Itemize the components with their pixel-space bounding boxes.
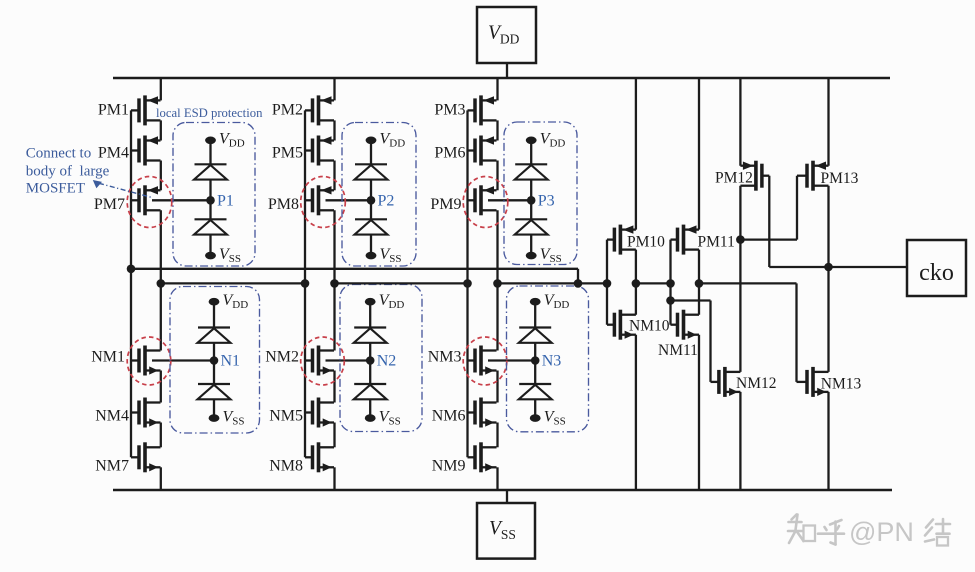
svg-text:P2: P2 bbox=[378, 193, 395, 210]
svg-text:PM11: PM11 bbox=[698, 234, 735, 251]
svg-text:NM11: NM11 bbox=[658, 342, 698, 359]
svg-text:N3: N3 bbox=[542, 353, 562, 370]
svg-text:cko: cko bbox=[919, 260, 954, 286]
svg-text:VSS: VSS bbox=[540, 246, 562, 265]
svg-text:NM6: NM6 bbox=[432, 408, 466, 425]
svg-text:N2: N2 bbox=[377, 353, 397, 370]
svg-text:PM1: PM1 bbox=[98, 102, 129, 119]
svg-text:PM3: PM3 bbox=[434, 102, 465, 119]
svg-text:VDD: VDD bbox=[219, 131, 245, 150]
svg-text:NM5: NM5 bbox=[269, 408, 303, 425]
svg-text:PM4: PM4 bbox=[98, 145, 129, 162]
svg-text:body of large: body of large bbox=[26, 164, 110, 180]
svg-text:VSS: VSS bbox=[489, 518, 516, 542]
svg-text:VSS: VSS bbox=[544, 408, 566, 427]
svg-text:PM12: PM12 bbox=[715, 170, 753, 187]
svg-text:PM9: PM9 bbox=[430, 196, 461, 213]
svg-text:P3: P3 bbox=[538, 193, 555, 210]
svg-text:PM7: PM7 bbox=[94, 196, 125, 213]
svg-text:NM10: NM10 bbox=[629, 318, 670, 335]
svg-text:VDD: VDD bbox=[540, 131, 566, 150]
svg-text:NM2: NM2 bbox=[265, 349, 299, 366]
svg-text:VDD: VDD bbox=[488, 23, 520, 47]
svg-text:NM12: NM12 bbox=[736, 375, 776, 392]
svg-text:VDD: VDD bbox=[380, 131, 406, 150]
svg-text:NM1: NM1 bbox=[91, 349, 125, 366]
svg-text:P1: P1 bbox=[217, 193, 234, 210]
svg-text:VDD: VDD bbox=[379, 292, 405, 311]
svg-text:VSS: VSS bbox=[219, 246, 241, 265]
svg-text:Connect to: Connect to bbox=[26, 146, 91, 162]
svg-text:PM5: PM5 bbox=[272, 145, 303, 162]
svg-text:VDD: VDD bbox=[544, 292, 570, 311]
svg-text:local ESD protection: local ESD protection bbox=[156, 106, 263, 120]
svg-text:NM4: NM4 bbox=[95, 408, 129, 425]
svg-text:VDD: VDD bbox=[223, 292, 249, 311]
svg-text:PM13: PM13 bbox=[821, 170, 859, 187]
svg-text:NM9: NM9 bbox=[432, 458, 466, 475]
svg-text:VSS: VSS bbox=[380, 246, 402, 265]
svg-text:PM6: PM6 bbox=[434, 145, 465, 162]
svg-text:@PN: @PN bbox=[849, 517, 914, 547]
svg-text:PM8: PM8 bbox=[268, 196, 299, 213]
svg-text:NM7: NM7 bbox=[95, 458, 129, 475]
svg-text:NM8: NM8 bbox=[269, 458, 303, 475]
svg-text:NM13: NM13 bbox=[821, 376, 862, 393]
svg-text:NM3: NM3 bbox=[428, 349, 462, 366]
svg-text:PM10: PM10 bbox=[627, 234, 665, 251]
svg-text:VSS: VSS bbox=[379, 408, 401, 427]
svg-text:PM2: PM2 bbox=[272, 102, 303, 119]
svg-text:VSS: VSS bbox=[223, 408, 245, 427]
svg-text:N1: N1 bbox=[221, 353, 241, 370]
svg-text:MOSFET: MOSFET bbox=[26, 181, 85, 197]
